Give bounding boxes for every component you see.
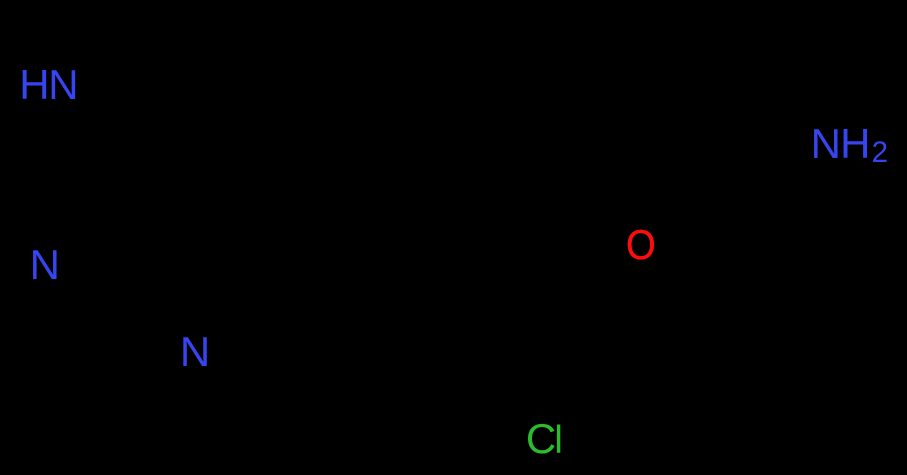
atom label Cl <box>526 418 563 460</box>
atom label NH2 <box>811 123 888 167</box>
benzene ring right: edge A-B <box>452 238 545 262</box>
benzene inner double A-B <box>462 252 540 272</box>
wire bond CH2-NH2 <box>751 160 806 199</box>
wire bond C4a-C4-Nb vertical <box>199 152 209 332</box>
wire bond Na-C2 <box>47 284 98 330</box>
benzene edge B-C <box>545 238 612 292</box>
benzene inner double C-D <box>592 298 600 370</box>
wire bond Cm-F <box>320 368 452 393</box>
wire bond O-CH2 <box>658 199 751 240</box>
wire bond HN-C8a <box>57 103 124 213</box>
wire bond HN-CH2 <box>80 13 169 72</box>
benzene edge F-A <box>450 262 454 368</box>
wire bond C2-Nb <box>98 330 179 349</box>
wire double bond inner pyrimidine <box>195 165 202 320</box>
benzene inner double E-F <box>466 364 516 398</box>
atom label HN <box>19 64 77 106</box>
benzene edge C-D <box>603 292 612 377</box>
wire bond C4a-C8a-Na <box>60 152 209 256</box>
benzene edge E-F <box>452 368 518 412</box>
wire bond biaryl link upper <box>209 152 452 262</box>
atom label N ring bottom <box>180 331 210 373</box>
wire bond Nb-Cm <box>214 356 320 393</box>
wire bond CH2-C4a <box>169 13 209 152</box>
wire bond D-Cl <box>566 377 603 416</box>
atom label O ether <box>626 224 656 266</box>
benzene edge D-E <box>518 377 603 412</box>
wire bond C-O ether <box>612 263 629 292</box>
atom label N ring left <box>30 244 60 286</box>
